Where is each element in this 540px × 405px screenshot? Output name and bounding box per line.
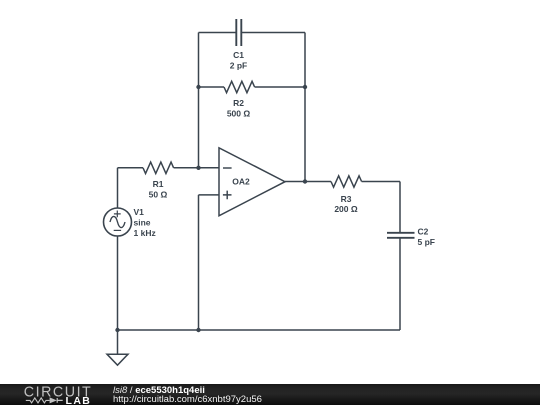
wire noninverting input vertical branch bbox=[198, 195, 200, 330]
svg-text:5 pF: 5 pF bbox=[418, 237, 435, 247]
wire R1 left lead bbox=[118, 167, 144, 169]
svg-text:1 kHz: 1 kHz bbox=[134, 228, 156, 238]
resistor R1 zigzag bbox=[143, 162, 174, 173]
junction dot left of R2 bbox=[196, 85, 200, 89]
wire op-amp output bbox=[285, 181, 331, 183]
wire noninverting input horizontal bbox=[199, 194, 220, 196]
wire below V1 to ground rail bbox=[117, 236, 119, 330]
svg-text:sine: sine bbox=[134, 217, 151, 227]
voltage source V1 minus mark bbox=[114, 229, 121, 231]
svg-text:C2: C2 bbox=[418, 227, 429, 237]
resistor R2 zigzag bbox=[224, 81, 255, 92]
CircuitLab logo bbox=[0, 384, 110, 405]
svg-text:LAB: LAB bbox=[66, 395, 92, 405]
ground symbol triangle bbox=[107, 354, 128, 365]
wire top left of C1 bbox=[199, 32, 237, 34]
voltage source V1 plus mark bbox=[114, 211, 121, 218]
wire ground stem bbox=[117, 330, 119, 354]
logo diode bbox=[50, 397, 57, 403]
wire feedback right vertical bbox=[304, 33, 306, 182]
svg-text:R1: R1 bbox=[153, 179, 164, 189]
resistor R3 zigzag bbox=[331, 176, 362, 187]
op-amp OA2 triangle bbox=[219, 148, 285, 216]
junction dot at inverting input node bbox=[196, 166, 200, 170]
capacitor C2 plates bbox=[387, 233, 415, 238]
logo resistor squiggle bbox=[26, 398, 50, 403]
svg-text:OA2: OA2 bbox=[232, 177, 250, 187]
wire below C2 to rail bbox=[399, 238, 401, 330]
wire feedback left vertical (node IN- branch) bbox=[198, 33, 200, 168]
wire down to C2 bbox=[399, 182, 401, 233]
svg-text:R2: R2 bbox=[233, 98, 244, 108]
svg-text:500 Ω: 500 Ω bbox=[227, 108, 251, 118]
svg-text:R3: R3 bbox=[341, 194, 352, 204]
junction dot at output node bbox=[303, 179, 307, 183]
voltage source V1 sine wave bbox=[110, 216, 125, 227]
junction dot right of R2 bbox=[303, 85, 307, 89]
svg-text:V1: V1 bbox=[134, 207, 145, 217]
credit text bbox=[113, 386, 262, 404]
wire V1 top stub bbox=[117, 168, 119, 208]
wire R3 right lead bbox=[362, 181, 400, 183]
svg-text:C1: C1 bbox=[233, 50, 244, 60]
wire R2 left lead bbox=[199, 86, 225, 88]
svg-text:200 Ω: 200 Ω bbox=[334, 204, 358, 214]
junction dot rail at V1 branch bbox=[115, 328, 119, 332]
op-amp OA2 minus input mark bbox=[223, 167, 232, 169]
voltage source V1 circle bbox=[104, 208, 132, 236]
op-amp OA2 plus input mark bbox=[223, 191, 232, 200]
junction dot rail at op-amp plus branch bbox=[196, 328, 200, 332]
wire bottom ground rail bbox=[118, 329, 401, 331]
wire R2 right lead bbox=[255, 86, 305, 88]
wire R1 right lead to op-amp bbox=[174, 167, 219, 169]
wire top right of C1 bbox=[241, 32, 305, 34]
capacitor C1 plates bbox=[236, 19, 241, 46]
svg-text:2 pF: 2 pF bbox=[230, 61, 247, 71]
svg-text:50 Ω: 50 Ω bbox=[149, 190, 168, 200]
footer bar bbox=[0, 384, 540, 405]
